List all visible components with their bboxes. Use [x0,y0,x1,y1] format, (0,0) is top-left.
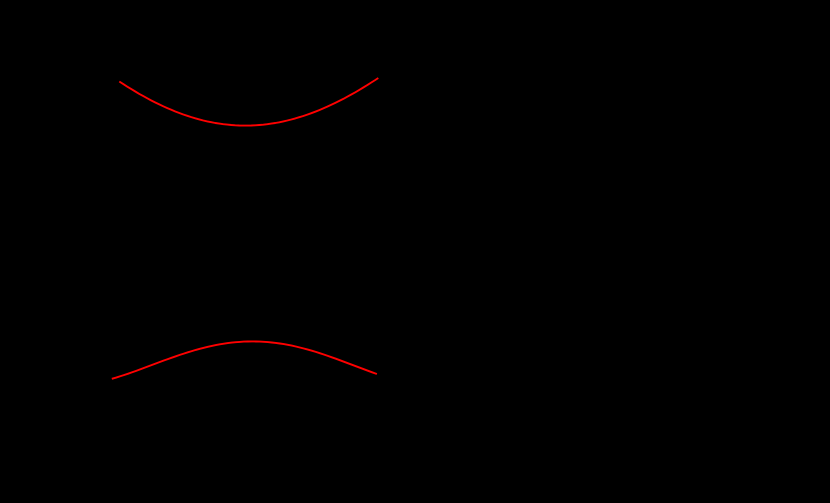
valence band curve (lower red curve, maximum near x=252) [112,341,377,378]
conduction band curve (upper red curve, minimum near x=244) [119,78,378,126]
